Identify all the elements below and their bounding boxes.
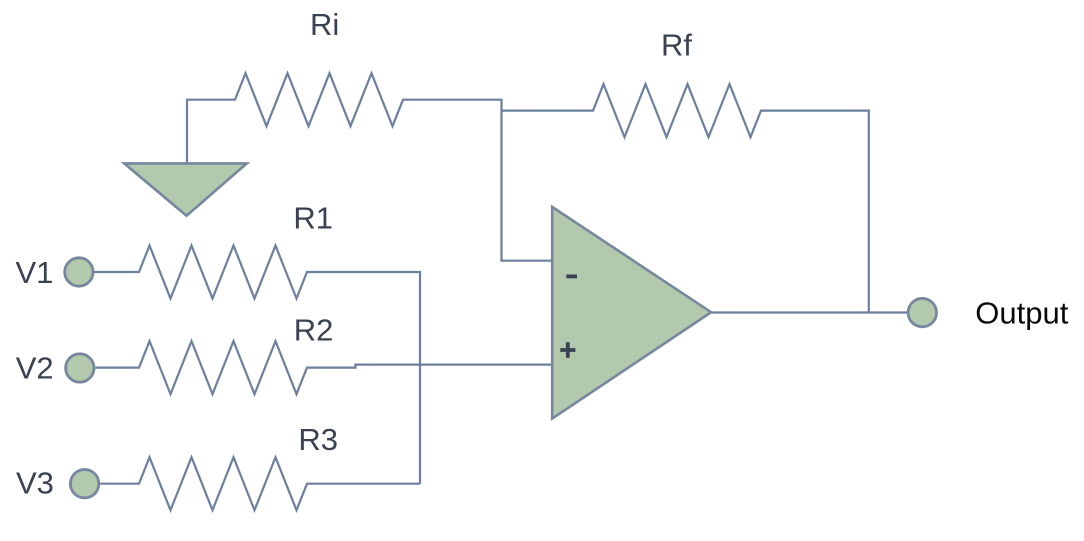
svg-text:V1: V1 [16,255,54,290]
svg-text:Rf: Rf [661,28,692,63]
svg-text:R2: R2 [294,313,334,348]
svg-text:R3: R3 [298,422,338,457]
svg-text:Ri: Ri [310,7,339,42]
svg-text:R1: R1 [293,201,333,236]
svg-text:V3: V3 [16,466,54,501]
svg-text:Output: Output [975,295,1068,330]
svg-text:V2: V2 [16,350,54,385]
